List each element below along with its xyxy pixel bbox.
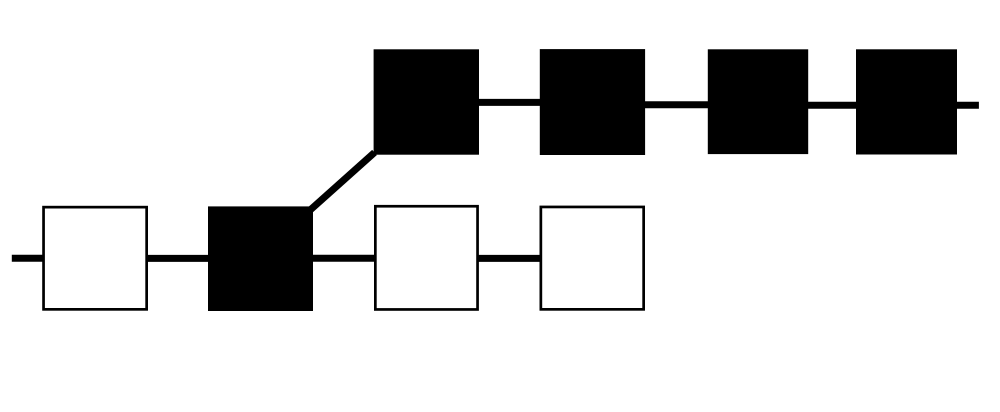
block B4 (bottom chain, outlined) xyxy=(541,207,644,309)
block T3 (top chain, filled) xyxy=(708,49,808,154)
wire: bottom chain connector B1-B2 xyxy=(145,255,212,262)
wire: top chain connector T2-T3 xyxy=(640,101,713,108)
wire: bottom chain connector B2-B3 xyxy=(310,255,377,262)
wire: diagonal fork link from bottom black block B2 to first top block T1 xyxy=(309,153,375,212)
wire: top chain connector T3-T4 xyxy=(803,102,861,109)
block B2 (bottom chain, filled fork point) xyxy=(208,206,313,311)
block T1 (top chain, filled) xyxy=(374,49,479,154)
block T2 (top chain, filled) xyxy=(540,49,645,155)
wire: bottom chain left tail into B1 xyxy=(12,255,46,262)
wire: bottom chain connector B3-B4 xyxy=(476,255,542,262)
wire: top chain connector T1-T2 xyxy=(470,99,545,106)
block B1 (bottom chain, outlined) xyxy=(44,207,147,309)
wire: top chain right tail after T4 xyxy=(950,102,979,109)
block B3 (bottom chain, outlined) xyxy=(375,206,477,309)
block T4 (top chain, filled) xyxy=(856,49,957,154)
